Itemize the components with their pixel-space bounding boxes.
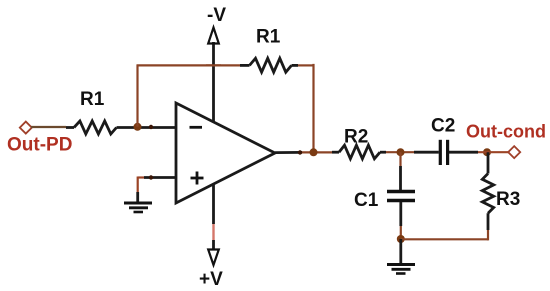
svg-text:R3: R3 [496, 189, 520, 210]
wire lead into feedback R1 [240, 64, 250, 67]
ground op-amp input [124, 203, 152, 212]
capacitor C2 [440, 140, 447, 165]
svg-text:R2: R2 [344, 127, 368, 148]
wire R1 to inverting input [117, 126, 177, 129]
node E junction dot [397, 235, 405, 243]
terminal Out-PD [20, 122, 32, 134]
wire feedback vertical right [312, 64, 314, 152]
pin dot output [298, 150, 302, 154]
resistor R3 [482, 174, 493, 214]
resistor R2 [339, 145, 380, 159]
svg-text:C1: C1 [354, 190, 379, 211]
svg-text:R1: R1 [80, 89, 105, 110]
wire feedback vertical left [136, 65, 138, 127]
resistor R1 feedback [250, 58, 292, 72]
wire R3 to bottom net [487, 213, 490, 240]
wire node D to R3 [487, 152, 490, 173]
wire bottom net [401, 238, 488, 240]
pin dot inverting input [149, 125, 153, 129]
node B junction dot output [310, 148, 318, 156]
power -V arrow [208, 28, 219, 44]
wire C2 to node D [449, 151, 478, 154]
wire R2 to node C [380, 151, 414, 154]
ground bottom [387, 265, 415, 274]
power pin +V line [212, 184, 215, 251]
wire input net (terminal to R1) [31, 126, 74, 129]
pin dot non-inverting input [149, 175, 153, 179]
svg-text:C2: C2 [431, 116, 455, 137]
wire node C to C2 [414, 151, 439, 154]
wire node C to C1 [399, 152, 401, 190]
wire node D to terminal [478, 151, 509, 153]
wire feedback crossing over -V pin [206, 64, 221, 66]
power pin -V line [212, 42, 215, 122]
resistor R1 input [74, 121, 117, 134]
wire feedback horizontal [137, 64, 241, 66]
svg-text:-V: -V [207, 5, 226, 26]
wire C1 to node E [399, 202, 402, 239]
node D junction dot [483, 148, 491, 156]
op-amp U1 [176, 103, 275, 203]
wire lead into R2 [332, 151, 339, 154]
svg-text:Out-PD: Out-PD [7, 135, 72, 156]
wire op-amp output [275, 151, 332, 154]
node A junction dot [134, 123, 142, 131]
svg-text:Out-cond: Out-cond [466, 122, 546, 142]
capacitor C1 [387, 192, 415, 201]
power +V arrow [208, 250, 219, 266]
terminal Out-cond [508, 146, 520, 158]
wire feedback R1 to corner [292, 64, 314, 67]
wire non-inverting input [138, 177, 176, 203]
svg-text:R1: R1 [256, 27, 281, 48]
node C junction dot [397, 148, 405, 156]
svg-text:+V: +V [199, 269, 223, 290]
wire node E to ground [399, 239, 402, 264]
